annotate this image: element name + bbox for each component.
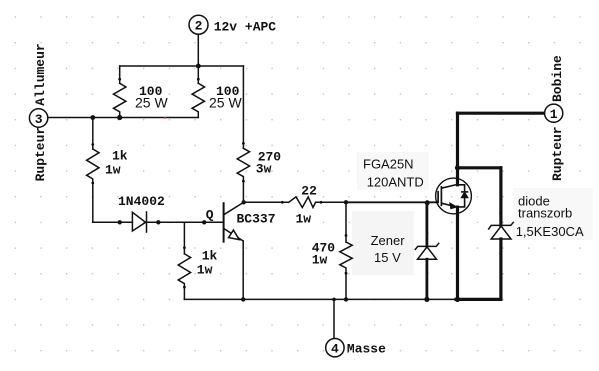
svg-text:1w: 1w: [296, 212, 312, 227]
svg-text:15 V: 15 V: [374, 250, 401, 265]
svg-text:Rupteur: Rupteur: [550, 126, 565, 181]
svg-text:3w: 3w: [256, 162, 272, 177]
svg-text:1k: 1k: [112, 149, 128, 164]
svg-text:Zener: Zener: [371, 233, 406, 248]
svg-text:BC337: BC337: [237, 211, 276, 226]
svg-text:FGA25N: FGA25N: [363, 156, 414, 171]
svg-text:4: 4: [331, 342, 339, 357]
svg-text:25 W: 25 W: [135, 95, 168, 111]
svg-text:Allumeur: Allumeur: [33, 43, 48, 105]
svg-text:22: 22: [301, 183, 317, 198]
svg-text:Bobine: Bobine: [550, 55, 565, 102]
svg-text:12v +APC: 12v +APC: [214, 20, 277, 35]
svg-text:120ANTD: 120ANTD: [367, 174, 424, 189]
svg-text:1k: 1k: [202, 249, 218, 264]
svg-text:Masse: Masse: [347, 342, 386, 357]
svg-text:3: 3: [35, 112, 43, 127]
svg-text:1w: 1w: [105, 163, 121, 178]
svg-text:1N4002: 1N4002: [118, 194, 165, 209]
svg-text:1: 1: [550, 107, 558, 122]
svg-text:2: 2: [195, 19, 203, 34]
svg-text:Rupteur: Rupteur: [33, 127, 48, 182]
svg-text:1w: 1w: [197, 263, 213, 278]
svg-text:1w: 1w: [312, 253, 328, 268]
svg-text:25 W: 25 W: [209, 95, 242, 111]
svg-text:1,5KE30CA: 1,5KE30CA: [516, 224, 584, 239]
svg-text:transzorb: transzorb: [518, 205, 572, 220]
svg-text:Q: Q: [206, 208, 214, 223]
